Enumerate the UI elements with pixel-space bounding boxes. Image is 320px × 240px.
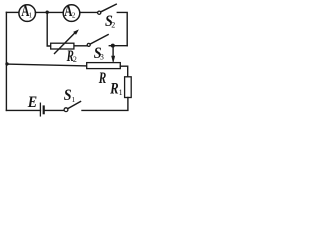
wire left edge to resistor R	[6, 64, 86, 66]
left edge wire	[5, 12, 7, 110]
svg-text:1: 1	[29, 11, 33, 19]
wire right edge to S3 fixed contact	[109, 45, 127, 47]
rheostat R2	[51, 29, 79, 64]
bottom wire battery to bottom-left corner	[6, 109, 40, 111]
node J2 junction dot	[111, 44, 115, 48]
resistor R	[87, 63, 121, 87]
svg-text:3: 3	[100, 52, 104, 61]
wire S1 to battery E	[45, 109, 64, 111]
wire R1 bottom to bottom-right corner to switch S1	[82, 98, 128, 111]
wire J1 down to rheostat R2	[47, 12, 51, 46]
wire top-left corner to ammeter A1	[6, 11, 19, 13]
wire rheostat R2 to S3	[74, 45, 87, 47]
battery E	[27, 94, 44, 116]
ammeter A1	[19, 3, 36, 22]
node J1 junction dot	[46, 11, 49, 14]
wire A2 to switch S2	[80, 11, 98, 13]
ammeter A2	[63, 3, 80, 22]
wire S2 fixed contact to top-right corner down right edge	[117, 12, 127, 45]
slider arrow from J2 down to resistor R	[111, 46, 115, 64]
wire R right end to top of R1	[120, 66, 127, 77]
svg-text:2: 2	[72, 11, 76, 19]
svg-text:1: 1	[72, 95, 76, 104]
switch S2	[98, 4, 117, 30]
svg-text:1: 1	[119, 88, 123, 97]
svg-text:2: 2	[111, 21, 115, 30]
svg-text:R: R	[109, 80, 119, 98]
svg-text:R: R	[98, 69, 106, 86]
switch S1	[64, 87, 81, 111]
resistor R1	[109, 77, 131, 98]
wire A1 to A2	[35, 11, 63, 13]
node J3 junction dot on left edge	[5, 62, 8, 65]
svg-text:E: E	[27, 94, 37, 111]
svg-text:S: S	[64, 87, 72, 104]
svg-text:2: 2	[73, 55, 77, 64]
switch S3	[87, 35, 108, 63]
